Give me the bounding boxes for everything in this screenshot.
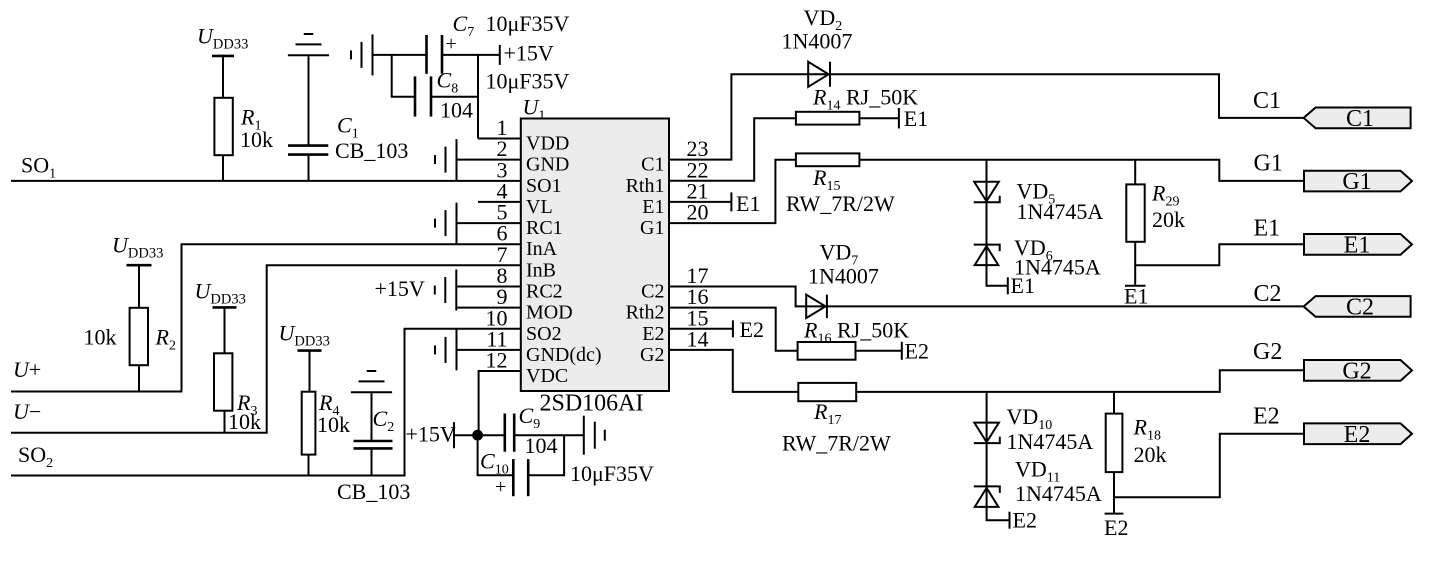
svg-text:E2: E2	[905, 339, 929, 364]
svg-text:G1: G1	[640, 217, 664, 239]
wire net SO2 to pin 10	[11, 329, 521, 476]
svg-text:10k: 10k	[228, 409, 261, 434]
wire R2 bottom to U+	[138, 365, 140, 391]
terminal E2 (VD11)	[1009, 512, 1011, 529]
wire pin 21 stub	[669, 201, 731, 203]
svg-text:10k: 10k	[84, 325, 117, 350]
svg-text:E2: E2	[740, 317, 764, 342]
svg-text:C1: C1	[641, 154, 664, 176]
wire riser +15V to pin 1	[477, 55, 479, 139]
wire ground to C2	[371, 393, 373, 440]
svg-text:E2: E2	[1104, 515, 1128, 540]
svg-text:+: +	[446, 33, 457, 55]
svg-text:E2: E2	[1344, 422, 1371, 448]
ground above C2	[351, 371, 392, 392]
svg-text:1N4007: 1N4007	[808, 264, 879, 289]
ground at pin 5	[435, 203, 457, 244]
svg-text:G2: G2	[1253, 339, 1282, 365]
wire net SO1 to pin 3	[11, 180, 521, 182]
svg-text:SO2: SO2	[18, 442, 53, 471]
svg-text:10k: 10k	[317, 412, 350, 437]
svg-text:UDD33: UDD33	[197, 24, 248, 53]
wire node down to C10	[478, 435, 514, 475]
svg-text:R17: R17	[813, 399, 841, 428]
zener diode VD10	[974, 423, 1000, 444]
wire R14 to E1 terminal	[859, 117, 899, 119]
wire pin 20 up to R15	[669, 160, 796, 223]
diode VD2	[808, 62, 830, 87]
wire pin 2 stub	[457, 159, 521, 161]
svg-text:R15: R15	[812, 165, 840, 194]
capacitor C7	[427, 33, 457, 74]
svg-text:UDD33: UDD33	[112, 233, 163, 262]
wire R29 to E1 terminal	[1134, 265, 1136, 285]
capacitor C1	[288, 146, 328, 155]
svg-text:C10: C10	[480, 449, 509, 478]
capacitor C10	[495, 459, 528, 498]
svg-text:E2: E2	[1013, 508, 1037, 533]
svg-text:InA: InA	[526, 238, 558, 260]
connector E1	[1304, 232, 1412, 258]
wire C1 to SO1	[308, 156, 310, 181]
terminal +15V bottom	[453, 422, 455, 448]
resistor R14	[796, 112, 860, 125]
terminal E1 (R29)	[1125, 285, 1146, 287]
wire C7 to +15V terminal	[442, 54, 500, 56]
wire R1 bottom to SO1	[222, 155, 224, 181]
capacitor C8	[415, 76, 431, 116]
svg-text:MOD: MOD	[526, 302, 573, 324]
wire corner to C8	[392, 55, 415, 97]
svg-text:R18: R18	[1133, 415, 1161, 444]
svg-text:C1: C1	[1346, 106, 1374, 132]
power symbol U_DD33 #4	[279, 321, 330, 392]
svg-text:U−: U−	[13, 399, 41, 424]
IC U1 2SD106AI	[521, 119, 669, 392]
zener diode VD5	[974, 182, 1000, 203]
svg-text:Rth1: Rth1	[626, 175, 665, 197]
svg-text:G1: G1	[1342, 169, 1371, 195]
ground at pins 8-9	[435, 270, 457, 311]
wire R17 rail to G2 connector	[856, 370, 1304, 392]
svg-text:SO1: SO1	[21, 153, 56, 182]
resistor R15	[796, 153, 860, 166]
svg-text:Rth2: Rth2	[626, 302, 665, 324]
connector E2	[1304, 422, 1412, 448]
resistor R16	[798, 342, 856, 360]
capacitor C9	[505, 414, 514, 452]
svg-text:SO1: SO1	[526, 175, 562, 197]
wire pin 11 stub	[457, 349, 521, 351]
zener diode VD6	[974, 245, 1000, 266]
svg-text:104: 104	[525, 433, 558, 458]
svg-text:+: +	[495, 476, 506, 498]
ground at pin 11	[435, 329, 457, 370]
resistor R3	[214, 353, 232, 410]
wire C8 to riser	[431, 96, 478, 98]
svg-text:C2: C2	[1254, 281, 1282, 307]
svg-text:E1: E1	[1254, 216, 1281, 242]
ground left of C7	[351, 34, 373, 75]
power symbol U_DD33 #1	[197, 24, 248, 98]
wire C10 up to ground wire	[528, 435, 564, 475]
svg-text:14: 14	[687, 326, 709, 351]
svg-text:C8: C8	[437, 68, 459, 97]
wire ground to C1	[308, 56, 310, 144]
svg-text:10μF35V: 10μF35V	[486, 69, 570, 94]
svg-text:RW_7R/2W: RW_7R/2W	[786, 191, 895, 216]
wire R16 to E2 terminal	[856, 350, 902, 352]
svg-text:CB_103: CB_103	[335, 138, 408, 163]
svg-text:UDD33: UDD33	[195, 279, 246, 308]
wire R4 bottom to SO2	[308, 455, 310, 476]
connector G2	[1304, 358, 1412, 384]
wire R15 rail to G1 connector	[859, 160, 1304, 181]
resistor R18	[1106, 414, 1123, 473]
resistor R2	[130, 308, 148, 365]
svg-text:E2: E2	[642, 323, 664, 345]
wire pin 5 stub	[457, 222, 521, 224]
svg-text:E1: E1	[1011, 273, 1035, 298]
svg-text:20k: 20k	[1152, 207, 1185, 232]
svg-text:10k: 10k	[240, 127, 273, 152]
ground right of C9	[584, 416, 605, 455]
connector C1	[1304, 106, 1411, 132]
svg-text:E1: E1	[904, 106, 928, 131]
power symbol U_DD33 #3	[195, 279, 246, 354]
wire C9 to ground	[514, 434, 584, 436]
diode VD7	[806, 295, 827, 319]
wire ground to C7	[373, 54, 427, 56]
terminal E1 (VD6)	[1007, 277, 1009, 294]
wire pin 12 down to +15V node	[479, 371, 521, 435]
svg-text:UDD33: UDD33	[279, 321, 330, 350]
svg-text:E1: E1	[642, 196, 664, 218]
svg-text:1N4007: 1N4007	[782, 29, 853, 54]
svg-text:C2: C2	[373, 406, 395, 435]
ground at pin 2	[435, 139, 457, 180]
svg-text:+15V: +15V	[504, 41, 554, 66]
wire pin 17 through VD7 to C2 connector	[669, 287, 1304, 307]
resistor R17	[798, 383, 856, 401]
svg-text:104: 104	[440, 98, 473, 123]
wire rail to R18	[1113, 392, 1115, 414]
svg-text:20: 20	[687, 200, 709, 225]
svg-text:R2: R2	[155, 325, 176, 354]
svg-text:G2: G2	[640, 344, 664, 366]
wire R18 bottom to E2 connector	[1114, 434, 1304, 498]
svg-text:E2: E2	[1253, 404, 1280, 430]
svg-text:R14 RJ_50K: R14 RJ_50K	[812, 85, 918, 114]
resistor R29	[1126, 184, 1144, 241]
svg-text:R29: R29	[1151, 181, 1179, 210]
wire R3 bottom to U-	[224, 411, 226, 432]
svg-text:C9: C9	[519, 403, 541, 432]
svg-text:C2: C2	[641, 281, 664, 303]
terminal E2 (R18)	[1105, 513, 1124, 515]
svg-text:G2: G2	[1342, 358, 1371, 384]
wire pin 16 down to R16	[669, 308, 798, 351]
svg-text:E1: E1	[1124, 284, 1148, 309]
terminal +15V top	[499, 45, 501, 65]
svg-text:1N4745A: 1N4745A	[1015, 481, 1102, 506]
zener diode VD11	[974, 486, 1000, 507]
svg-text:C2: C2	[1346, 294, 1374, 320]
terminal E1 (pin 21)	[730, 192, 732, 211]
wire rail to R29	[1134, 160, 1136, 185]
svg-text:E1: E1	[1344, 232, 1371, 258]
svg-text:VDC: VDC	[526, 365, 568, 387]
resistor R4	[302, 392, 316, 455]
power symbol U_DD33 #2	[112, 233, 163, 308]
wire pin 9 stub	[457, 307, 521, 309]
svg-text:+15V: +15V	[375, 276, 425, 301]
svg-text:10μF35V: 10μF35V	[570, 461, 654, 486]
terminal E1 (R14)	[898, 108, 900, 129]
svg-text:RC2: RC2	[526, 281, 563, 303]
terminal E2 (pin 15)	[732, 320, 734, 337]
wire R29 bottom to E1 connector	[1135, 242, 1304, 265]
svg-text:E1: E1	[736, 191, 760, 216]
wire rail through VD10/VD11 to E2 terminal	[987, 392, 1009, 520]
junction dot	[472, 430, 483, 441]
svg-text:C7: C7	[453, 11, 475, 40]
resistor R1	[214, 98, 232, 155]
svg-text:CB_103: CB_103	[337, 479, 410, 504]
wire R18 to E2 terminal	[1113, 497, 1115, 513]
svg-text:RW_7R/2W: RW_7R/2W	[782, 431, 891, 456]
svg-text:U1: U1	[523, 95, 546, 124]
svg-text:U+: U+	[13, 357, 41, 382]
capacitor C2	[354, 441, 393, 448]
svg-text:1N4745A: 1N4745A	[1007, 429, 1094, 454]
ground above C1	[288, 34, 329, 55]
wire pin 4 stub	[478, 201, 521, 203]
svg-text:GND(dc): GND(dc)	[526, 344, 602, 366]
wire rail through VD5/VD6 to E1 terminal	[987, 160, 1008, 286]
svg-text:VDD: VDD	[526, 133, 569, 155]
svg-text:GND: GND	[526, 154, 569, 176]
svg-text:InB: InB	[526, 259, 556, 281]
wire pin 23 through VD2 to C1 connector	[669, 74, 1304, 159]
connector C2	[1304, 294, 1411, 320]
svg-text:10μF35V: 10μF35V	[486, 11, 570, 36]
wire pin 15 stub	[669, 328, 733, 330]
wire +15V terminal to C9	[454, 434, 505, 436]
wire pin 22 up to R14	[669, 118, 796, 181]
wire pin 8 stub	[457, 286, 521, 288]
svg-text:G1: G1	[1254, 151, 1283, 177]
svg-text:1N4745A: 1N4745A	[1017, 199, 1104, 224]
wire pin 1 stub	[478, 138, 521, 140]
svg-text:20k: 20k	[1134, 442, 1167, 467]
wire net U+ to pin 6	[11, 244, 521, 391]
svg-text:2SD106AI: 2SD106AI	[540, 391, 644, 417]
svg-text:SO2: SO2	[526, 323, 562, 345]
wire net U- to pin 7	[11, 265, 521, 432]
wire pin 14 down to R17	[669, 350, 798, 392]
wire C2 to SO2	[371, 449, 373, 475]
svg-text:VL: VL	[526, 196, 553, 218]
svg-text:+15V: +15V	[406, 422, 456, 447]
svg-text:RC1: RC1	[526, 217, 563, 239]
connector G1	[1304, 169, 1412, 195]
terminal E2 (R16)	[901, 342, 903, 360]
svg-text:12: 12	[486, 348, 508, 373]
svg-text:C1: C1	[1253, 88, 1281, 114]
